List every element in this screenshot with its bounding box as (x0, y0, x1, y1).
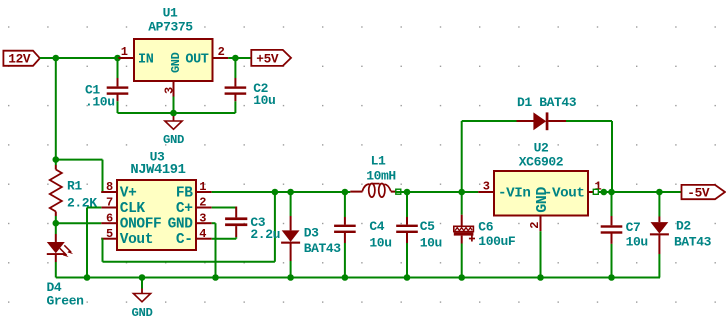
L1 pin end square (396, 189, 401, 194)
junction Vout loop (272, 189, 279, 196)
LED D4 (47, 223, 85, 308)
svg-text:U2: U2 (534, 141, 549, 156)
svg-text:D3: D3 (304, 226, 319, 241)
wire Vout loop (101, 192, 275, 262)
wire gnd stub (173, 113, 175, 116)
capacitor C5 (396, 192, 442, 278)
svg-text:C6: C6 (478, 220, 493, 235)
junction C4 (342, 189, 349, 196)
diode D2 (650, 192, 712, 278)
wire U3 GND down (212, 223, 216, 277)
wire V+ branch (56, 160, 103, 192)
svg-text:C4: C4 (369, 219, 384, 234)
U2 pin 2 (540, 216, 542, 232)
U1 pin 3 (173, 81, 175, 97)
junction C7 bottom (608, 274, 615, 281)
junction C6 / D1 tap (458, 189, 465, 196)
svg-text:2: 2 (199, 196, 206, 210)
svg-text:10u: 10u (369, 235, 391, 250)
svg-text:CLK: CLK (120, 201, 146, 217)
U3 pin 5 (101, 238, 117, 240)
junction D3 (287, 189, 294, 196)
U3 pin 7 (101, 207, 117, 209)
capacitor C7 (601, 192, 648, 278)
svg-text:10u: 10u (253, 93, 275, 108)
inductor L1 (350, 153, 396, 197)
junction U2 GND bottom (537, 274, 544, 281)
global label 12V (3, 51, 39, 67)
junction D3 bottom (287, 274, 294, 281)
wire gnd stub bottom (141, 278, 143, 289)
junction C5 (404, 189, 411, 196)
ground under U1 (163, 116, 184, 147)
resistor R1 (50, 165, 97, 216)
U1 pin 1 (118, 57, 134, 59)
svg-text:C-: C- (176, 232, 193, 248)
wire U1 pin3 to gnd rail (173, 97, 175, 114)
U3 pin 8 (101, 191, 117, 193)
op-amp U1 body (134, 6, 213, 82)
svg-text:NJW4191: NJW4191 (130, 163, 185, 178)
capacitor C4 (334, 192, 392, 278)
regulator U3 body (117, 149, 196, 250)
svg-text:Vout: Vout (120, 232, 153, 248)
svg-text:D2: D2 (676, 219, 691, 234)
wire left rail down (55, 57, 57, 165)
svg-text:Green: Green (47, 294, 85, 309)
svg-text:C7: C7 (626, 220, 641, 235)
junction C4 bottom (342, 274, 349, 281)
U2 pin 1 (588, 191, 594, 193)
svg-text:IN: IN (138, 52, 154, 67)
svg-text:100uF: 100uF (478, 234, 516, 249)
svg-text:GND: GND (534, 187, 551, 213)
svg-text:2.2u: 2.2u (250, 227, 280, 242)
svg-text:6: 6 (106, 211, 113, 225)
U3 pin 4 (196, 238, 212, 240)
svg-text:+5V: +5V (256, 51, 279, 66)
svg-text:1: 1 (199, 180, 206, 194)
U3 pin 6 (101, 222, 117, 224)
svg-text:BAT43: BAT43 (304, 241, 342, 256)
svg-text:12V: 12V (8, 52, 31, 67)
wire D4 to bottom rail (55, 262, 57, 278)
capacitor C6 (454, 192, 516, 278)
svg-text:BAT43: BAT43 (674, 235, 712, 250)
U3 pin 1 (196, 191, 212, 193)
junction D2 (656, 189, 663, 196)
svg-text:-VIn: -VIn (498, 185, 530, 201)
svg-text:7: 7 (106, 196, 113, 210)
capacitor C3 (212, 207, 280, 243)
svg-text:3: 3 (199, 211, 206, 225)
svg-text:V+: V+ (120, 185, 137, 201)
junction gnd rail (170, 110, 177, 117)
U2 pin 1 end square (593, 189, 598, 194)
junction C5 bottom (404, 274, 411, 281)
wire 12V to U1 IN (40, 57, 119, 59)
wire gnd rail under U1 (118, 112, 236, 114)
junction left rail tap (53, 55, 60, 62)
U3 pin 2 (196, 207, 212, 209)
svg-text:C+: C+ (176, 201, 193, 217)
junction CLK bottom (84, 274, 91, 281)
wire U2 out rail (598, 191, 682, 193)
junction C2 tap (232, 55, 239, 62)
ground under U3 (132, 289, 153, 320)
svg-text:C5: C5 (420, 219, 435, 234)
global label +5V (251, 50, 291, 67)
svg-text:D1 BAT43: D1 BAT43 (517, 95, 577, 110)
wire bottom rail (56, 277, 660, 279)
svg-text:ONOFF: ONOFF (120, 217, 162, 233)
wire D1 loop left (462, 121, 517, 192)
junction gnd symbol (139, 274, 146, 281)
diode D1 (517, 95, 577, 130)
junction C6 bottom (458, 274, 465, 281)
U2 pin 3 (478, 191, 494, 193)
svg-text:GND: GND (168, 217, 194, 233)
wire U2 GND down (540, 231, 542, 277)
svg-text:8: 8 (106, 180, 113, 194)
svg-text:2: 2 (218, 45, 225, 59)
svg-text:5: 5 (106, 227, 113, 241)
svg-text:FB: FB (176, 185, 193, 201)
U3 pin 3 (196, 222, 212, 224)
svg-text:10u: 10u (626, 235, 648, 250)
svg-text:4: 4 (199, 227, 206, 241)
junction U3 GND bottom (212, 274, 219, 281)
svg-text:R1: R1 (67, 179, 82, 194)
junction C1 tap (114, 55, 121, 62)
svg-text:-5V: -5V (687, 186, 710, 201)
junction pin1 (601, 189, 608, 196)
svg-text:GND: GND (163, 133, 184, 147)
capacitor C2 (225, 58, 276, 113)
svg-text:U1: U1 (163, 6, 178, 21)
svg-text:3: 3 (483, 179, 490, 193)
svg-text:OUT: OUT (185, 52, 208, 67)
wire ONOFF branch (56, 222, 102, 224)
wire R1 to junction (55, 216, 57, 223)
wire U1 OUT to +5V (228, 57, 251, 59)
junction C7 / D1 (608, 189, 615, 196)
svg-text:AP7375: AP7375 (148, 20, 193, 35)
svg-text:2: 2 (528, 222, 542, 229)
svg-text:XC6902: XC6902 (519, 155, 564, 170)
wire FB rail (212, 191, 351, 193)
U1 pin 2 (213, 57, 229, 59)
svg-text:10mH: 10mH (366, 169, 396, 184)
svg-text:GND: GND (132, 306, 153, 320)
capacitor C1 (85, 58, 128, 113)
svg-text:L1: L1 (371, 153, 386, 168)
svg-text:1: 1 (121, 45, 128, 59)
regulator U2 body (494, 141, 588, 216)
svg-text:10u: 10u (420, 235, 442, 250)
svg-text:3: 3 (163, 87, 177, 94)
junction V+ tap (53, 156, 60, 163)
wire D1 loop right (566, 121, 612, 192)
wire L1 to U2 (396, 191, 479, 193)
svg-text:.10u: .10u (85, 95, 115, 110)
global label -5V (682, 185, 726, 201)
diode D3 (281, 192, 341, 278)
wire CLK branch (87, 208, 101, 278)
junction ONOFF tap (53, 220, 60, 227)
svg-text:GND: GND (169, 52, 183, 73)
